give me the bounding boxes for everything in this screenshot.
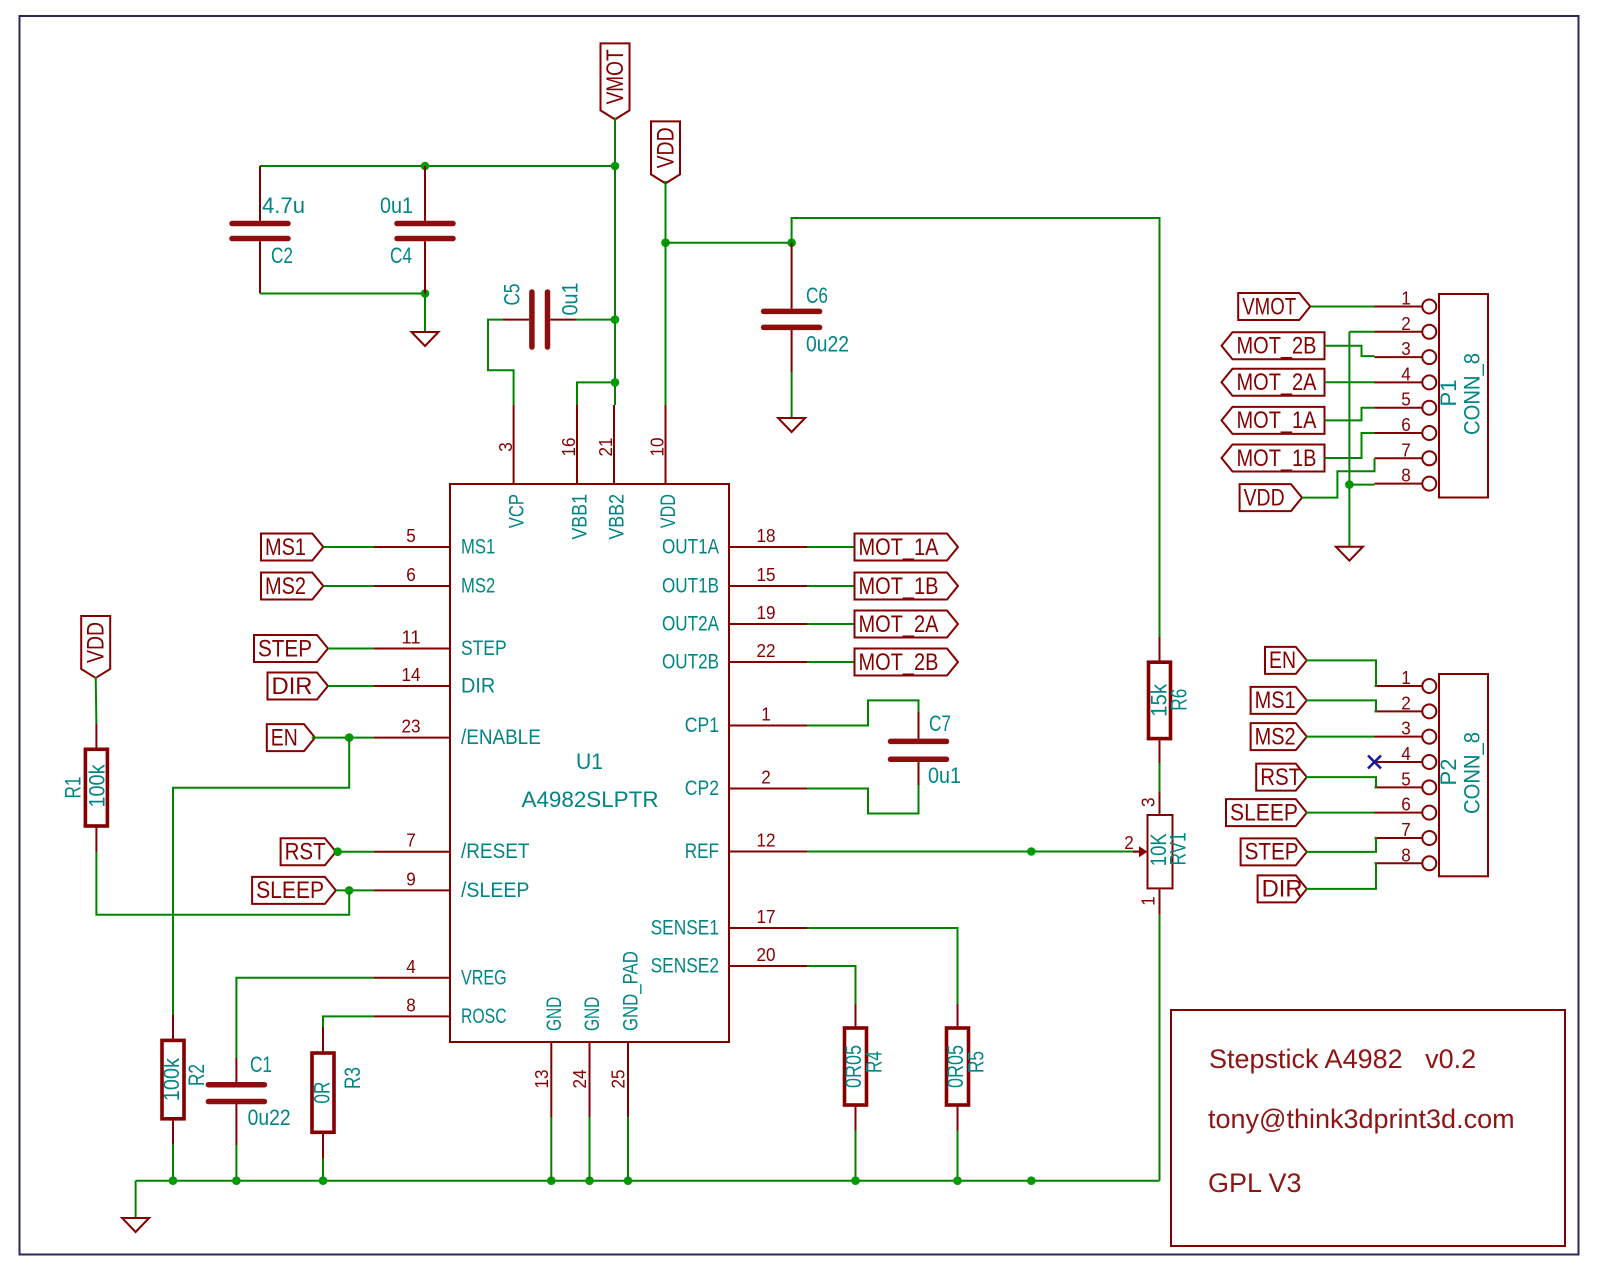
wire R3 to rail [322, 1158, 324, 1181]
svg-text:8: 8 [1401, 465, 1411, 486]
junction VBB1 branch [611, 378, 620, 387]
wire VDD label down [665, 181, 667, 243]
svg-text:MOT_1A: MOT_1A [1237, 407, 1318, 434]
svg-text:8: 8 [1401, 844, 1411, 865]
svg-text:7: 7 [1401, 439, 1411, 460]
svg-text:A4982SLPTR: A4982SLPTR [522, 787, 659, 812]
svg-text:1: 1 [1401, 667, 1411, 688]
svg-text:2: 2 [1401, 313, 1411, 334]
svg-text:19: 19 [757, 602, 776, 623]
svg-text:VBB1: VBB1 [569, 494, 592, 540]
svg-text:2: 2 [761, 767, 771, 788]
wire VDD to P1 pin7 [1302, 458, 1375, 497]
capacitor C4 [380, 193, 453, 268]
wire C6 gnd stub [791, 372, 793, 418]
svg-text:1: 1 [1401, 288, 1411, 309]
wire chip GND pin13 to rail [550, 1117, 552, 1181]
wire C2-C4 bottom wire [260, 293, 425, 295]
svg-text:R3: R3 [340, 1067, 365, 1089]
junction ground rail x=1031.3 [1027, 1176, 1036, 1185]
svg-text:EN: EN [1269, 647, 1296, 674]
svg-text:VBB2: VBB2 [606, 494, 629, 540]
junction on REF wire [1027, 847, 1036, 856]
junction ground rail x=957.5 [953, 1176, 962, 1185]
svg-text:2: 2 [1124, 832, 1134, 853]
wire C1 to rail [235, 1145, 237, 1181]
wire C6 riser [792, 218, 1160, 637]
wire C1 top lead [235, 1058, 237, 1082]
wire C2 bottom lead [259, 241, 261, 293]
svg-text:VCP: VCP [505, 494, 528, 528]
junction at VMOT column [611, 162, 620, 171]
svg-text:5: 5 [406, 525, 416, 546]
svg-text:C7: C7 [929, 711, 951, 736]
wire SLEEP to P2 pin6 [1306, 812, 1375, 814]
wire C5 left path to VCP [488, 320, 514, 405]
wire C6 top lead [791, 243, 793, 309]
svg-text:5: 5 [1401, 389, 1411, 410]
svg-text:3: 3 [1401, 338, 1411, 359]
wire R3 bottom pin [322, 1132, 324, 1158]
node MOT_2A label (chip side) [855, 611, 959, 638]
svg-text:25: 25 [608, 1070, 629, 1089]
svg-text:2: 2 [1401, 692, 1411, 713]
no-connect X on P2 pin4 [1368, 756, 1381, 769]
potentiometer RV1 [1124, 798, 1190, 906]
svg-text:CONN_8: CONN_8 [1460, 353, 1485, 435]
wire VDD column down to chip [665, 243, 667, 405]
svg-text:MOT_2A: MOT_2A [1237, 369, 1318, 396]
svg-text:/RESET: /RESET [461, 840, 530, 863]
wire R6 top pin [1159, 637, 1161, 662]
svg-text:OUT2A: OUT2A [662, 613, 719, 636]
svg-text:OUT2B: OUT2B [662, 651, 719, 674]
node SLEEP label (P2 side) [1226, 799, 1307, 826]
svg-text:3: 3 [1401, 718, 1411, 739]
ground symbol below C6 [778, 418, 805, 432]
wire VMOT column down to VBB2 [614, 166, 616, 405]
svg-text:6: 6 [1401, 794, 1411, 815]
node DIR label (chip side) [268, 673, 329, 700]
svg-text:STEP: STEP [258, 635, 312, 662]
svg-text:C5: C5 [499, 284, 524, 306]
wire C7 top lead [918, 712, 920, 739]
wire VDD to C6 [666, 242, 792, 244]
wire CP1 to C7 [807, 700, 919, 725]
wire gnd column to pin2 [1349, 331, 1374, 333]
wire R2 top pin [172, 1015, 174, 1041]
title text line2 [1208, 1104, 1515, 1134]
svg-text:U1: U1 [576, 749, 603, 774]
svg-text:100k: 100k [85, 764, 110, 808]
ground symbol bottom-left [122, 1218, 149, 1232]
wire RST to P2 pin5 [1306, 777, 1376, 787]
svg-text:0u1: 0u1 [928, 763, 961, 788]
node RST label (chip side) [281, 838, 336, 865]
svg-text:6: 6 [1401, 414, 1411, 435]
wire C1 bottom lead [235, 1104, 237, 1146]
svg-text:C1: C1 [250, 1052, 272, 1077]
svg-text:17: 17 [757, 906, 776, 927]
wire C7 bottom lead [918, 761, 920, 785]
node DIR label (P2 side) [1258, 875, 1307, 902]
junction EN branch [345, 733, 354, 742]
power flag VDD (top) [651, 121, 680, 183]
svg-text:0u1: 0u1 [558, 283, 583, 316]
wire OUT to MOT_2B [807, 661, 855, 663]
svg-text:RST: RST [1260, 764, 1301, 791]
svg-text:C6: C6 [806, 283, 828, 308]
wire ROSC to R3 [323, 1016, 374, 1027]
svg-text:SENSE1: SENSE1 [651, 917, 719, 940]
svg-text:VDD: VDD [652, 127, 679, 168]
title text line1 [1209, 1044, 1476, 1074]
svg-text:MOT_2A: MOT_2A [859, 611, 940, 638]
wire RV1 pin1 down [1159, 888, 1161, 914]
wire MOT_1A to P1 pin5 [1325, 408, 1375, 421]
junction SLEEP branch [345, 886, 354, 895]
svg-text:12: 12 [757, 830, 776, 851]
wire RV1 to rail [1159, 915, 1161, 1181]
svg-text:R6: R6 [1166, 689, 1191, 711]
wire C4 top lead [424, 166, 426, 221]
svg-text:4.7u: 4.7u [262, 193, 305, 218]
junction P1 pin8 gnd [1345, 480, 1354, 489]
wire OUT to MOT_2A [807, 623, 855, 625]
wire C5 left pin [503, 319, 529, 321]
svg-text:MS1: MS1 [461, 536, 495, 559]
svg-text:DIR: DIR [272, 673, 313, 700]
svg-text:11: 11 [402, 627, 421, 648]
svg-text:VMOT: VMOT [1242, 293, 1296, 320]
node MS1 label (P2 side) [1251, 687, 1307, 714]
node VMOT label (P1 side) [1238, 293, 1310, 320]
wire RST to chip [336, 851, 374, 853]
wire MS2 to P2 pin3 [1306, 736, 1375, 738]
svg-text:16: 16 [558, 438, 579, 457]
resistor R5 [943, 1028, 989, 1105]
svg-text:MS2: MS2 [265, 573, 306, 600]
wire R5 to rail [957, 1131, 959, 1181]
svg-text:R1: R1 [61, 777, 86, 799]
wire VMOT to P1 pin1 [1310, 306, 1374, 308]
wire MOT_2A to P1 pin4 [1325, 381, 1375, 383]
node RST label (P2 side) [1256, 764, 1307, 791]
wire ground rail [136, 1180, 1160, 1182]
wire MS1 to chip [323, 546, 374, 548]
svg-text:3: 3 [1138, 798, 1159, 808]
svg-text:R4: R4 [862, 1051, 887, 1073]
svg-text:GND: GND [543, 997, 566, 1031]
wire SENSE2 to R4 [807, 966, 856, 1004]
svg-text:4: 4 [406, 956, 416, 977]
node EN label (P2 side) [1265, 647, 1307, 674]
svg-text:SENSE2: SENSE2 [651, 955, 719, 978]
junction ground rail x=589.5 [585, 1176, 594, 1185]
node SLEEP label (chip side) [252, 877, 336, 904]
svg-text:VDD: VDD [1244, 484, 1285, 511]
junction VDD column [661, 238, 670, 247]
resistor R6 [1147, 662, 1192, 738]
svg-text:7: 7 [1401, 819, 1411, 840]
op-amp U1 A4982SLPTR stepper driver IC [374, 405, 807, 1117]
wire R2 to rail [172, 1144, 174, 1181]
wire EN to P2 pin1 [1306, 660, 1376, 686]
wire CP2 to C7 [807, 785, 919, 814]
wire chip GND_PAD to rail [627, 1117, 629, 1181]
wire C4 bottom lead [424, 241, 426, 295]
wire EN branch to R2 [173, 738, 349, 1015]
svg-text:CP1: CP1 [685, 714, 719, 737]
svg-text:0u22: 0u22 [248, 1105, 291, 1130]
junction at RST tip [333, 847, 342, 856]
svg-text:20: 20 [757, 944, 776, 965]
wire gnd column to pin8 [1349, 484, 1374, 486]
wire R6 to RV1 [1159, 763, 1161, 792]
svg-text:7: 7 [406, 830, 416, 851]
wire SLEEP to chip [336, 889, 374, 891]
svg-text:1: 1 [1138, 896, 1159, 906]
svg-text:VDD: VDD [83, 622, 110, 663]
node MS1 label (chip side) [261, 534, 323, 561]
svg-text:0R: 0R [310, 1082, 335, 1104]
connector P1 CONN_8 [1375, 288, 1489, 498]
svg-text:P1: P1 [1436, 380, 1461, 407]
node MS2 label (chip side) [261, 573, 323, 600]
ground symbol below P1 [1336, 547, 1363, 561]
node MOT_2A label (P1 side) [1222, 369, 1325, 396]
junction at C6 top [787, 238, 796, 247]
wire RV1 pin3 [1159, 792, 1161, 815]
capacitor C1 [208, 1052, 290, 1130]
svg-text:/SLEEP: /SLEEP [461, 879, 529, 902]
svg-text:MOT_2B: MOT_2B [1237, 333, 1317, 360]
wire chip GND pin24 to rail [589, 1117, 591, 1181]
svg-text:4: 4 [1401, 363, 1411, 384]
wire R5 top pin [957, 1004, 959, 1028]
svg-text:MS2: MS2 [1255, 723, 1296, 750]
svg-text:14: 14 [402, 664, 421, 685]
svg-text:MOT_1B: MOT_1B [1237, 445, 1317, 472]
svg-text:OUT1A: OUT1A [662, 536, 719, 559]
power flag VMOT [601, 43, 630, 119]
junction ground rail x=551.3 [547, 1176, 556, 1185]
svg-text:EN: EN [271, 724, 298, 751]
svg-text:CONN_8: CONN_8 [1460, 732, 1485, 814]
svg-text:RV1: RV1 [1166, 832, 1191, 865]
wire OUT to MOT_1B [807, 585, 855, 587]
svg-text:18: 18 [757, 525, 776, 546]
wire VMOT horizontal rail [260, 165, 615, 167]
svg-text:22: 22 [757, 640, 776, 661]
title text line3 [1208, 1168, 1302, 1198]
node MOT_1A label (P1 side) [1222, 407, 1325, 434]
svg-text:REF: REF [685, 840, 719, 863]
junction ground rail x=173 [169, 1176, 178, 1185]
svg-text:5: 5 [1401, 768, 1411, 789]
junction at C4 bottom [421, 289, 430, 298]
wire R6 bottom pin [1159, 739, 1161, 763]
wire REF to RV1 [807, 851, 1140, 853]
svg-text:MOT_2B: MOT_2B [859, 649, 939, 676]
svg-text:3: 3 [495, 442, 516, 452]
svg-text:SLEEP: SLEEP [1230, 799, 1298, 826]
wire DIR to chip [328, 685, 374, 687]
svg-text:STEP: STEP [461, 637, 507, 660]
svg-text:9: 9 [406, 868, 416, 889]
junction ground rail x=323 [319, 1176, 328, 1185]
wire C5 right pin [550, 319, 576, 321]
svg-text:0u1: 0u1 [380, 193, 413, 218]
connector P2 CONN_8 [1375, 667, 1489, 876]
svg-text:STEP: STEP [1245, 839, 1299, 866]
svg-text:6: 6 [406, 564, 416, 585]
wire DIR to P2 pin8 [1306, 863, 1376, 889]
wire STEP to P2 pin7 [1306, 838, 1376, 852]
wire C6 bottom lead [791, 330, 793, 372]
svg-text:ROSC: ROSC [461, 1005, 507, 1028]
junction at C4 top [421, 162, 430, 171]
svg-text:4: 4 [1401, 743, 1411, 764]
svg-text:Stepstick A4982 v0.2: Stepstick A4982 v0.2 [1209, 1044, 1476, 1074]
svg-text:10: 10 [647, 438, 668, 457]
wire R1 bottom pin [95, 826, 97, 852]
capacitor C2 [232, 193, 305, 268]
svg-text:tony@think3dprint3d.com: tony@think3dprint3d.com [1208, 1104, 1515, 1134]
wire MOT_2B to P1 pin3 [1325, 346, 1375, 356]
svg-text:15: 15 [757, 564, 776, 585]
svg-text:R5: R5 [964, 1051, 989, 1073]
svg-text:GND: GND [581, 997, 604, 1031]
svg-text:0u22: 0u22 [806, 332, 849, 357]
svg-text:VREG: VREG [461, 966, 507, 989]
svg-text:MS1: MS1 [1255, 687, 1296, 714]
svg-text:MS2: MS2 [461, 575, 495, 598]
node MOT_2B label (chip side) [855, 649, 959, 676]
node MOT_1B label (chip side) [855, 573, 959, 600]
node VDD label (P1 side) [1240, 484, 1302, 511]
svg-text:R2: R2 [184, 1064, 209, 1086]
resistor R4 [841, 1028, 887, 1105]
resistor R3 [310, 1053, 366, 1132]
wire R3 top pin [322, 1027, 324, 1053]
svg-text:8: 8 [406, 994, 416, 1015]
svg-text:GND_PAD: GND_PAD [620, 951, 643, 1031]
wire VBB1 branch [577, 382, 615, 405]
wire R4 bottom pin [855, 1105, 857, 1131]
svg-text:VMOT: VMOT [602, 49, 629, 104]
svg-text:MOT_1B: MOT_1B [859, 573, 939, 600]
wire C2 top lead [259, 166, 261, 221]
svg-text:P2: P2 [1436, 759, 1461, 786]
svg-text:CP2: CP2 [685, 777, 719, 800]
node MOT_2B label (P1 side) [1222, 332, 1325, 359]
wire VMOT label to bus [614, 118, 616, 167]
wire OUT to MOT_1A [807, 546, 855, 548]
svg-text:OUT1B: OUT1B [662, 575, 719, 598]
svg-text:MOT_1A: MOT_1A [859, 534, 940, 561]
node STEP label (chip side) [254, 635, 328, 662]
svg-text:SLEEP: SLEEP [256, 877, 324, 904]
svg-text:24: 24 [569, 1070, 590, 1089]
svg-text:13: 13 [531, 1070, 552, 1089]
junction C5-VMOT column [611, 315, 620, 324]
junction ground rail x=628 [624, 1176, 633, 1185]
title block frame [1171, 1010, 1565, 1246]
svg-text:C2: C2 [271, 243, 293, 268]
svg-text:100k: 100k [159, 1057, 184, 1101]
node STEP label (P2 side) [1241, 838, 1307, 865]
power flag VDD (left) [81, 616, 110, 678]
node MOT_1A label (chip side) [855, 534, 959, 561]
svg-text:DIR: DIR [1262, 876, 1303, 903]
svg-text:RST: RST [285, 839, 326, 866]
wire SLEEP branch to R1 [96, 852, 349, 915]
node MS2 label (P2 side) [1251, 723, 1307, 750]
wire MS2 to chip [323, 585, 374, 587]
wire SENSE1 to R5 [807, 928, 958, 1004]
wire rail left stub [135, 1181, 137, 1218]
svg-text:C4: C4 [390, 243, 412, 268]
svg-text:MS1: MS1 [265, 534, 306, 561]
wire R5 bottom pin [957, 1105, 959, 1131]
wire MOT_1B to P1 pin6 [1325, 433, 1375, 458]
svg-text:1: 1 [761, 704, 771, 725]
wire P1 gnd column [1348, 332, 1350, 547]
junction ground rail x=855.5 [851, 1176, 860, 1185]
svg-text:21: 21 [595, 438, 616, 457]
capacitor C5 [499, 283, 582, 348]
resistor R1 [61, 749, 110, 826]
capacitor C7 [891, 711, 962, 788]
svg-text:23: 23 [402, 716, 421, 737]
wire R4 top pin [855, 1004, 857, 1028]
capacitor C6 [764, 283, 849, 357]
wire STEP to chip [328, 648, 374, 650]
wire gnd stub below C4 [424, 294, 426, 333]
node MOT_1B label (P1 side) [1222, 445, 1325, 472]
wire VDD to R1 [95, 677, 98, 724]
resistor R2 [159, 1040, 209, 1118]
svg-text:DIR: DIR [461, 675, 495, 698]
wire EN to chip [312, 737, 374, 739]
wire C5 right to VMOT column [576, 319, 615, 321]
node EN label (chip side) [267, 724, 315, 751]
junction ground rail x=236.4 [232, 1176, 241, 1185]
ground symbol below C4 [412, 332, 439, 346]
wire MS1 to P2 pin2 [1306, 700, 1376, 711]
svg-text:GPL V3: GPL V3 [1208, 1168, 1302, 1198]
svg-text:/ENABLE: /ENABLE [461, 726, 541, 749]
wire VREG to C1 [236, 978, 374, 1058]
wire R2 bottom pin [172, 1119, 174, 1144]
svg-text:VDD: VDD [657, 494, 680, 528]
wire R4 to rail [855, 1131, 857, 1181]
wire R1 top pin [95, 723, 97, 749]
